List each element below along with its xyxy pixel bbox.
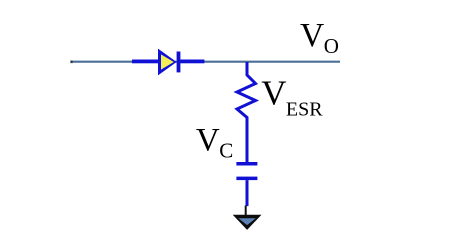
svg-text:V: V bbox=[300, 17, 324, 54]
svg-text:C: C bbox=[219, 139, 233, 163]
svg-text:V: V bbox=[196, 123, 220, 159]
svg-text:V: V bbox=[261, 74, 286, 113]
svg-text:O: O bbox=[324, 34, 339, 58]
svg-text:ESR: ESR bbox=[286, 98, 323, 120]
